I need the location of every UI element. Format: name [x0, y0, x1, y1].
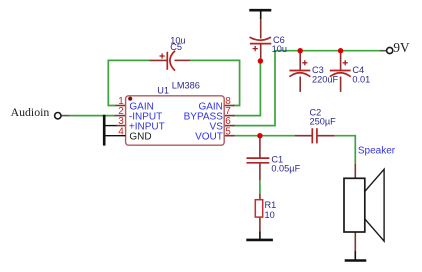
svg-text:C5: C5	[170, 42, 182, 52]
svg-text:9V: 9V	[393, 40, 410, 55]
svg-text:LM386: LM386	[172, 81, 200, 91]
svg-text:10: 10	[265, 210, 275, 220]
svg-text:10u: 10u	[272, 44, 287, 54]
svg-text:R1: R1	[265, 200, 277, 210]
svg-text:220uF: 220uF	[312, 74, 338, 84]
svg-text:U1: U1	[157, 85, 169, 95]
svg-text:4: 4	[118, 126, 124, 137]
svg-text:GND: GND	[129, 132, 151, 143]
svg-text:5: 5	[225, 126, 231, 137]
svg-text:250µF: 250µF	[310, 117, 337, 127]
svg-text:Audioin: Audioin	[11, 105, 50, 119]
svg-text:Speaker: Speaker	[358, 146, 396, 157]
svg-text:VOUT: VOUT	[195, 132, 223, 143]
svg-text:0.05µF: 0.05µF	[271, 163, 300, 173]
svg-text:0.01: 0.01	[352, 74, 370, 84]
